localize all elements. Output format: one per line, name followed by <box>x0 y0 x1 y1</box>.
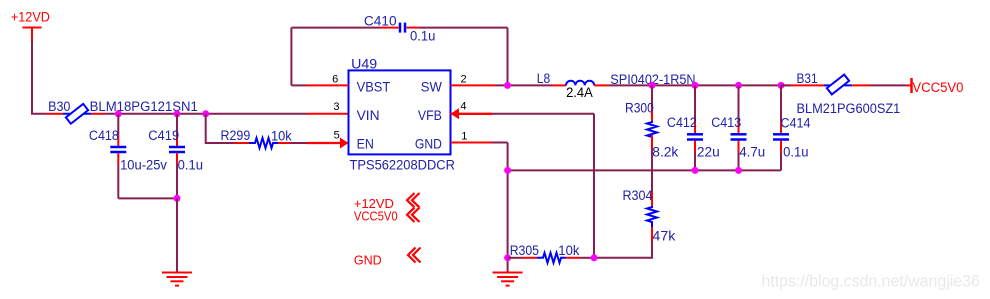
wire R304 bottom <box>594 241 652 258</box>
pin 4 VFB with input arrow <box>451 108 493 119</box>
svg-text:VCC5V0: VCC5V0 <box>354 209 398 224</box>
svg-text:U49: U49 <box>351 56 377 71</box>
capacitor C413 <box>731 85 747 170</box>
svg-text:+12VD: +12VD <box>11 10 50 25</box>
wire SW to L8 <box>495 84 552 86</box>
wire R300 to R304 (crosses gnd wire, no junction) <box>651 149 653 192</box>
svg-text:10k: 10k <box>558 243 579 258</box>
svg-text:EN: EN <box>357 136 374 152</box>
wire B30 to VIN <box>105 113 307 115</box>
junction at R305 left <box>504 254 511 261</box>
junction on input rail at C418 <box>115 110 122 117</box>
resistor R304 <box>647 192 657 241</box>
power port +12VD <box>11 10 50 43</box>
wire +12VD rail to B30 <box>32 41 63 114</box>
junction SW node <box>504 82 511 89</box>
ground GND1 <box>162 273 192 286</box>
ferrite bead B31 <box>781 75 870 95</box>
svg-text:1: 1 <box>461 131 467 143</box>
junction at C419 bottom <box>174 195 181 202</box>
wire VFB to divider <box>492 114 594 258</box>
svg-text:C410: C410 <box>364 14 397 29</box>
wire R299 to EN <box>290 142 307 144</box>
svg-text:VFB: VFB <box>418 107 442 123</box>
svg-text:BLM21PG600SZ1: BLM21PG600SZ1 <box>797 101 901 116</box>
svg-text:5: 5 <box>334 129 340 141</box>
wire C419 bottom to ground <box>176 198 178 272</box>
svg-text:C412: C412 <box>667 115 697 130</box>
svg-text:4.7u: 4.7u <box>739 145 765 160</box>
ground GND2 <box>493 273 523 286</box>
svg-text:2: 2 <box>461 73 467 85</box>
pin 5 EN with input arrow <box>307 138 349 149</box>
svg-text:SW: SW <box>421 79 443 95</box>
wire L8 to B31 <box>609 84 791 86</box>
junction at C413 <box>735 82 742 89</box>
junction on input rail at R299 branch <box>202 110 209 117</box>
legend chevrons for +12VD <box>407 193 420 222</box>
svg-text:C413: C413 <box>711 115 741 130</box>
ferrite bead B30 <box>63 104 105 124</box>
svg-text:22u: 22u <box>697 145 720 160</box>
svg-text:R305: R305 <box>510 243 539 258</box>
junction gnd vertical <box>504 167 511 174</box>
svg-text:BLM18PG121SN1: BLM18PG121SN1 <box>90 99 198 114</box>
junction gnd rail at C413 <box>735 167 742 174</box>
junction at C412 <box>692 82 699 89</box>
pin 2 SW <box>451 84 496 86</box>
svg-text:0.1u: 0.1u <box>783 145 808 160</box>
wire B31 to VCC5V0 <box>870 84 906 86</box>
capacitor C414 <box>773 85 789 170</box>
svg-text:0.1u: 0.1u <box>410 29 435 44</box>
svg-text:4: 4 <box>460 100 466 112</box>
junction gnd rail at C412 <box>692 167 699 174</box>
wire VBST to C410 loop <box>291 28 380 86</box>
svg-text:6: 6 <box>332 74 338 86</box>
svg-text:GND: GND <box>415 136 442 152</box>
inductor L8 <box>552 81 609 86</box>
svg-text:https://blog.csdn.net/wangjie3: https://blog.csdn.net/wangjie36 <box>762 273 980 291</box>
pin 1 GND <box>451 142 493 144</box>
svg-text:GND: GND <box>354 252 382 267</box>
ground wire under capacitors <box>508 169 781 171</box>
svg-text:R299: R299 <box>221 128 251 143</box>
wire GND pin to ground rail <box>492 143 508 273</box>
resistor R305 <box>508 253 594 263</box>
pin 6 VBST <box>306 84 349 86</box>
wire C418 to C419 bottom <box>118 197 177 199</box>
capacitor C410 <box>380 23 419 33</box>
svg-text:VCC5V0: VCC5V0 <box>912 80 963 95</box>
wire R299 branch vertical <box>206 114 234 143</box>
junction VFB node <box>591 254 598 261</box>
svg-text:R304: R304 <box>623 188 653 203</box>
resistor R300 <box>647 85 657 149</box>
junction at C414 <box>778 82 785 89</box>
wire C410 to SW node <box>419 28 508 86</box>
resistor R299 <box>234 138 290 148</box>
legend chevron for GND <box>408 248 421 263</box>
svg-text:B30: B30 <box>48 99 70 114</box>
svg-text:L8: L8 <box>537 71 550 86</box>
junction at R300 <box>649 82 656 89</box>
capacitor C418 <box>110 114 126 199</box>
svg-text:C414: C414 <box>781 116 811 131</box>
capacitor C419 <box>169 114 185 199</box>
pin 3 VIN <box>307 113 349 115</box>
svg-text:VBST: VBST <box>357 79 391 95</box>
svg-text:47k: 47k <box>652 228 675 243</box>
svg-text:3: 3 <box>333 101 339 113</box>
svg-text:VIN: VIN <box>357 107 380 123</box>
svg-text:C419: C419 <box>148 128 179 143</box>
junction on input rail at C419 <box>174 110 181 117</box>
power port VCC5V0 <box>906 78 964 95</box>
svg-text:C418: C418 <box>89 128 119 143</box>
svg-text:2.4A: 2.4A <box>566 85 593 100</box>
svg-text:B31: B31 <box>797 71 818 86</box>
svg-text:R300: R300 <box>625 101 654 116</box>
svg-text:TPS562208DDCR: TPS562208DDCR <box>350 157 456 172</box>
svg-text:10u-25v: 10u-25v <box>120 157 167 172</box>
svg-text:10k: 10k <box>271 128 292 143</box>
svg-text:0.1u: 0.1u <box>178 157 203 172</box>
capacitor C412 <box>687 85 703 170</box>
svg-text:8.2k: 8.2k <box>652 145 678 160</box>
IC U49 TPS562208DDCR body <box>349 70 451 154</box>
